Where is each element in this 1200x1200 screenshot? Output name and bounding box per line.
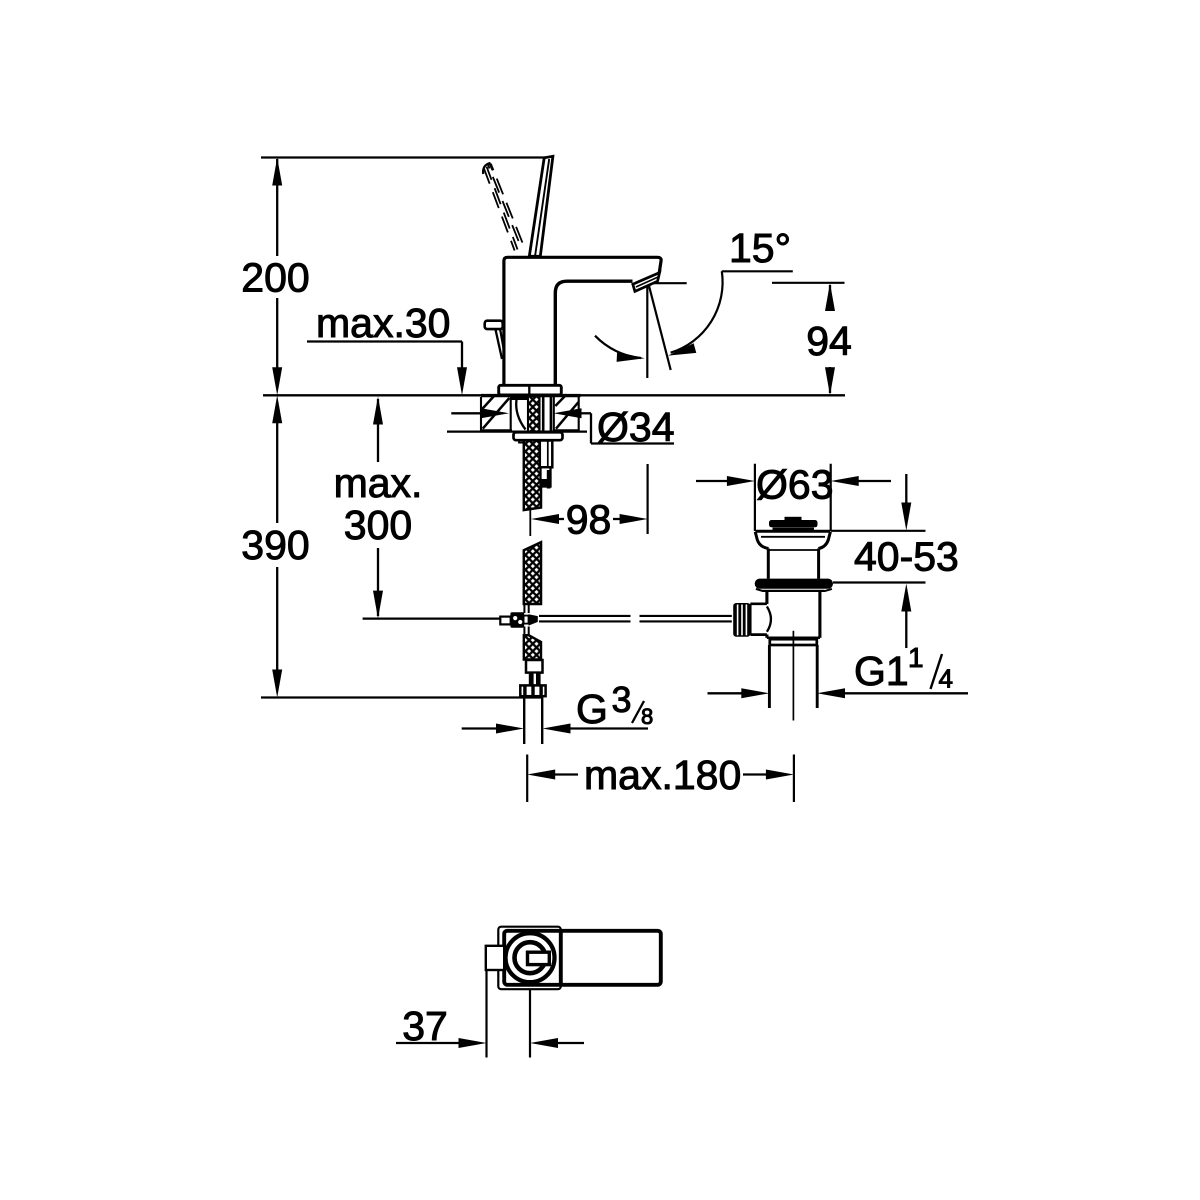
dimension G3/8 arrows <box>462 727 497 729</box>
dimension D63 arrows <box>696 480 728 482</box>
hose connector box <box>526 660 543 673</box>
reference line bottom (hose end datum) <box>261 696 543 698</box>
dimension 40-53 arrows <box>905 474 907 503</box>
svg-text:8: 8 <box>641 704 653 729</box>
svg-text:max.: max. <box>334 460 423 506</box>
dimension 94 arrows <box>829 285 831 311</box>
faucet spout underside <box>555 281 632 385</box>
hose connection nut <box>520 685 545 696</box>
deck hatch block left <box>481 397 511 431</box>
supply hose segment A <box>524 441 541 511</box>
popup rod vertical channel <box>524 604 528 636</box>
spout vertical reference line <box>646 285 648 378</box>
dimension 37 arrows <box>396 1042 464 1044</box>
angle arc right <box>671 271 723 353</box>
svg-text:G1: G1 <box>854 648 909 694</box>
svg-text:G: G <box>576 686 608 732</box>
dimension max.30 arrow down <box>457 367 467 395</box>
svg-text:37: 37 <box>402 1003 448 1049</box>
deck hatch block right <box>554 397 579 431</box>
spout 15deg slant line <box>649 285 671 370</box>
faucet base plate <box>499 385 562 395</box>
angle arc left <box>595 336 641 358</box>
svg-text:94: 94 <box>806 318 852 364</box>
drain center line <box>792 631 794 721</box>
dimension D34 right arrow <box>554 408 582 418</box>
drain lower ring <box>770 639 817 645</box>
top view handle slot <box>528 952 550 964</box>
faucet side popup knob <box>485 321 503 329</box>
svg-text:200: 200 <box>241 255 309 301</box>
drain side port <box>750 602 767 605</box>
dimension D34 left arrow <box>451 412 484 414</box>
dimension G1 1/4 arrows <box>708 692 743 694</box>
popup rod clamp <box>500 617 510 625</box>
hose connector dark collar <box>529 673 541 686</box>
dimension 200 arrow up <box>272 158 282 186</box>
supply hose segment C <box>524 635 541 659</box>
svg-text:Ø34: Ø34 <box>597 404 675 450</box>
dimension 200 arrow down <box>272 367 282 395</box>
svg-text:40-53: 40-53 <box>854 534 959 580</box>
deck cross-section underside line <box>447 431 587 433</box>
hose centerline extension <box>529 510 531 536</box>
dimension D63 extension lines <box>754 464 756 531</box>
svg-text:15°: 15° <box>729 225 791 271</box>
dimension 390 arrow down <box>272 670 282 698</box>
dimension 40-53 reference lines <box>831 530 926 532</box>
faucet spout outlet aerator <box>633 273 660 292</box>
svg-text:Ø63: Ø63 <box>756 462 834 508</box>
dimension max.300 arrow up <box>373 397 383 425</box>
popup rod left reference line <box>363 617 501 619</box>
faucet handle dashed alternate position <box>484 164 525 251</box>
drain flange <box>756 530 831 533</box>
top view handle circles <box>506 933 555 982</box>
drain knurled knob <box>733 603 750 637</box>
drain push cap <box>769 520 818 527</box>
supply hose segment B <box>524 542 541 604</box>
top view body and spout <box>504 931 661 985</box>
dimension max.300 arrow down <box>373 591 383 619</box>
svg-text:4: 4 <box>939 664 953 694</box>
svg-text:300: 300 <box>344 502 412 548</box>
dimension 200 vertical line <box>276 159 278 368</box>
mounting nut <box>514 432 563 440</box>
popup horizontal rod <box>539 616 732 622</box>
drain neck <box>767 549 770 579</box>
popup rod tube below nut <box>540 441 553 468</box>
threaded shank through deck <box>528 397 540 432</box>
reference line deck surface <box>263 394 845 396</box>
dimension D34 leader <box>581 413 674 443</box>
dimension 98 extension line <box>646 464 648 534</box>
dimension 94 reference line <box>772 282 845 284</box>
dimension max.180 arrows <box>527 770 555 780</box>
top view outer thin plate <box>498 927 561 990</box>
dimension max.180 extension lines <box>526 755 528 803</box>
reference line top (handle height datum) <box>261 156 550 158</box>
svg-text:3: 3 <box>612 679 632 720</box>
dimension 15deg underline <box>722 270 793 272</box>
deck cross-section top edge <box>481 394 581 397</box>
svg-text:390: 390 <box>241 522 309 568</box>
faucet body outline <box>504 257 661 385</box>
svg-text:max.180: max.180 <box>584 752 741 798</box>
dimension 390 arrow up <box>272 395 282 423</box>
dimension 37 extension lines <box>485 971 487 1058</box>
dimension max.300 vertical line <box>377 399 379 616</box>
popup rod tube through deck <box>542 397 545 432</box>
drain body <box>765 592 768 605</box>
dimension max.30 leader <box>307 342 462 370</box>
top view left tab <box>486 946 504 970</box>
drain tailpipe G1 1/4 <box>768 645 771 708</box>
dimension 390 vertical line <box>276 422 278 671</box>
connection tube G3/8 <box>523 696 525 744</box>
svg-text:1: 1 <box>908 642 924 673</box>
svg-text:98: 98 <box>566 497 612 543</box>
dimension 98 arrows <box>531 514 559 524</box>
drain gasket <box>755 579 833 589</box>
faucet handle solid <box>529 156 553 256</box>
svg-text:max.30: max.30 <box>316 300 450 346</box>
spout outlet level line <box>648 282 687 284</box>
